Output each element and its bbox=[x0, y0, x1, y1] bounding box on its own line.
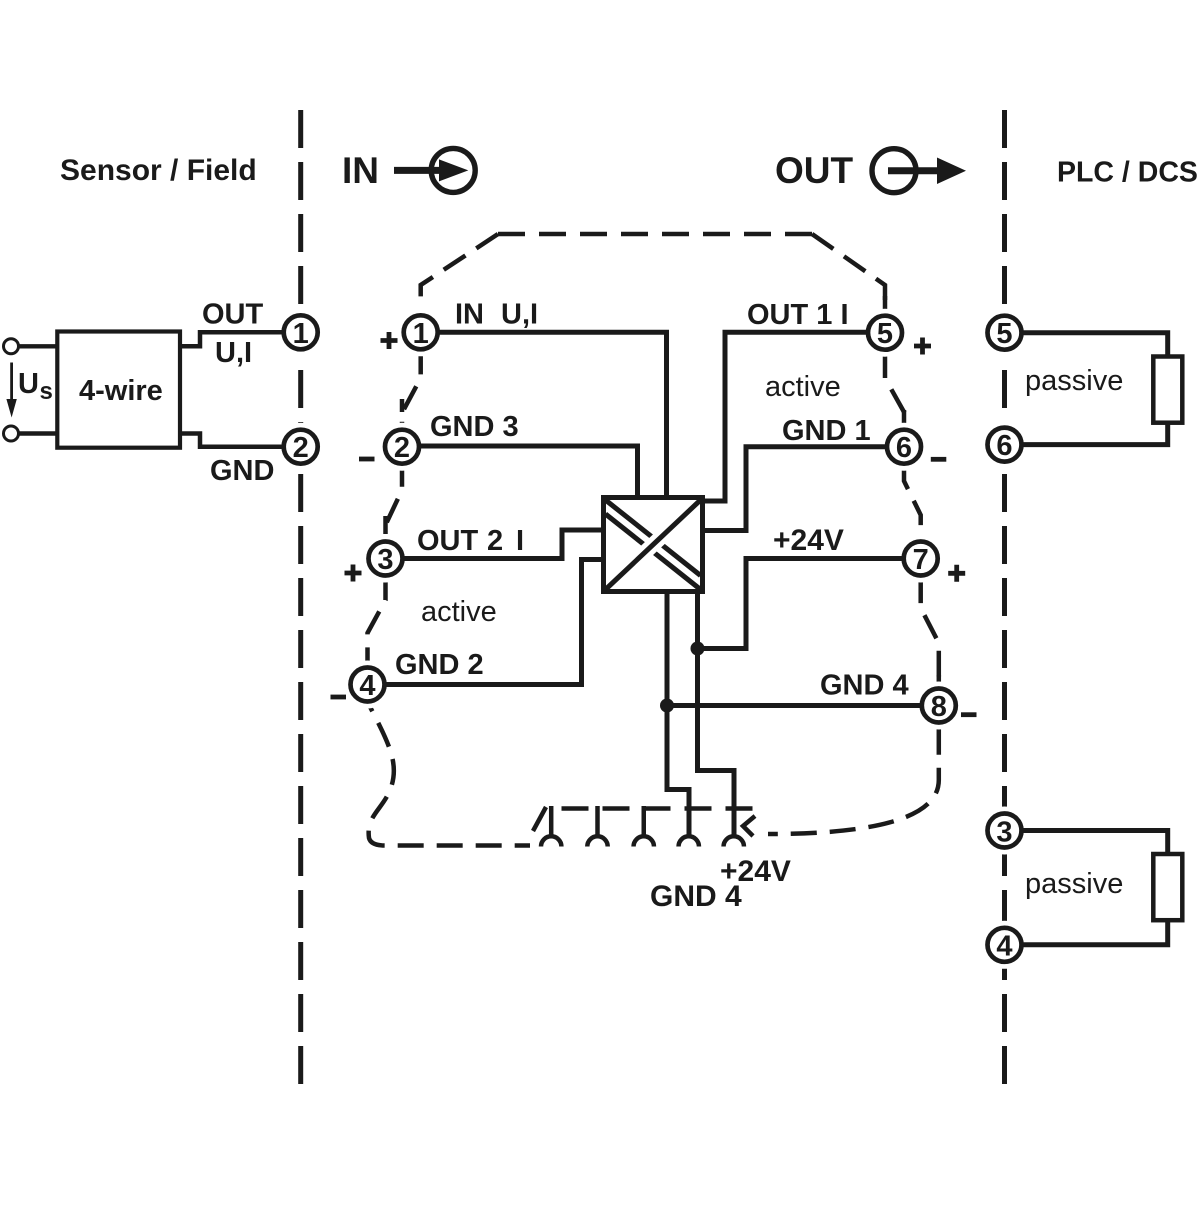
bus pin arc 3 bbox=[634, 836, 654, 846]
svg-text:GND 4: GND 4 bbox=[650, 880, 742, 913]
svg-text:s: s bbox=[40, 378, 53, 405]
svg-text:3: 3 bbox=[377, 544, 393, 576]
svg-text:1: 1 bbox=[413, 318, 429, 350]
svg-text:GND 2: GND 2 bbox=[395, 649, 484, 681]
module terminal 3 bbox=[369, 542, 403, 577]
terminal circle 2 (left separator) bbox=[284, 430, 318, 465]
bus pin stub 3 bbox=[642, 806, 647, 838]
svg-text:OUT: OUT bbox=[202, 299, 264, 331]
plus sign terminal 5 bbox=[914, 338, 931, 355]
PLC terminal 5 bbox=[988, 316, 1022, 351]
svg-text:GND 4: GND 4 bbox=[820, 670, 909, 702]
OUT symbol bbox=[872, 149, 966, 193]
svg-text:PLC / DCS: PLC / DCS bbox=[1057, 156, 1198, 188]
svg-text:2: 2 bbox=[394, 432, 410, 464]
minus sign terminal 6 bbox=[931, 457, 947, 462]
svg-text:active: active bbox=[421, 596, 497, 628]
wire IN U,I terminal 1 to isolator bbox=[438, 332, 667, 497]
wire isolator +24V down to bus pin 5 bbox=[698, 592, 735, 838]
svg-text:3: 3 bbox=[996, 817, 1012, 849]
svg-text:IN: IN bbox=[455, 299, 484, 331]
svg-text:5: 5 bbox=[996, 318, 1012, 350]
wire 4-wire OUT to terminal 1 bbox=[180, 332, 285, 346]
boundary stub dashes near terminals bbox=[386, 296, 939, 687]
svg-text:4: 4 bbox=[996, 930, 1012, 962]
bus pin arc 4 bbox=[679, 836, 699, 846]
module dashed boundary top bbox=[498, 232, 812, 237]
svg-text:GND 3: GND 3 bbox=[430, 411, 519, 443]
wire OUT 1 I isolator to terminal 5 bbox=[703, 332, 868, 501]
module terminal 2 bbox=[385, 430, 419, 465]
svg-text:5: 5 bbox=[877, 318, 893, 350]
wire isolator GND4 down to bus pin 4 bbox=[667, 592, 689, 838]
wire GND 2 terminal 4 to isolator bbox=[385, 560, 603, 685]
module terminal 4 bbox=[351, 668, 385, 703]
svg-text:4: 4 bbox=[359, 670, 375, 702]
plus sign terminal 3 bbox=[345, 565, 362, 582]
minus sign terminal 2 bbox=[359, 457, 375, 462]
wire GND 1 isolator to terminal 6 bbox=[703, 447, 887, 531]
svg-text:2: 2 bbox=[487, 525, 503, 557]
svg-text:passive: passive bbox=[1025, 365, 1123, 397]
svg-text:GND: GND bbox=[210, 455, 274, 487]
right separator dashed line bbox=[1002, 110, 1007, 1085]
isolator U1 crossing diagonal with white casing bbox=[606, 500, 701, 590]
svg-text:Sensor / Field: Sensor / Field bbox=[60, 154, 257, 187]
bus pin arc 2 bbox=[587, 836, 607, 846]
isolator U1 box bbox=[604, 498, 703, 592]
isolator U1 white fill bbox=[601, 495, 705, 594]
PLC load 1 wires bbox=[1022, 333, 1168, 445]
svg-text:OUT: OUT bbox=[775, 150, 854, 191]
bus connector dashed baseline bbox=[562, 806, 754, 811]
svg-text:OUT: OUT bbox=[417, 525, 479, 557]
module dashed boundary left bbox=[368, 234, 531, 846]
PLC load 2 wires bbox=[1022, 831, 1168, 945]
IN symbol bbox=[394, 148, 475, 192]
PLC terminal 3 bbox=[988, 814, 1022, 849]
svg-text:U: U bbox=[18, 368, 39, 400]
terminal circle 1 (left separator) bbox=[284, 315, 318, 350]
module terminal 1 bbox=[404, 315, 438, 350]
sensor terminal bottom circle bbox=[4, 426, 19, 441]
wire GND 3 terminal 2 to isolator bbox=[420, 446, 638, 497]
module terminal 8 bbox=[922, 689, 956, 724]
minus sign terminal 4 bbox=[331, 695, 347, 700]
svg-text:8: 8 bbox=[931, 691, 947, 723]
bus pin stub 1 bbox=[549, 806, 554, 838]
junction dot +24V bbox=[691, 642, 705, 656]
wire GND 4 junction to terminal 8 bbox=[667, 703, 922, 708]
junction dot GND4 bbox=[660, 699, 674, 713]
svg-text:IN: IN bbox=[342, 150, 379, 191]
module terminal 5 bbox=[868, 316, 902, 351]
bus connector left tick bbox=[533, 807, 546, 831]
module dashed boundary right bbox=[768, 234, 939, 834]
halos to keep dash gap around terminals bbox=[277, 308, 1029, 969]
svg-text:6: 6 bbox=[996, 430, 1012, 462]
PLC load 1 resistor bbox=[1153, 357, 1182, 423]
bus pin stub 2 bbox=[595, 806, 600, 838]
PLC terminal 4 bbox=[988, 928, 1022, 963]
module terminal 6 bbox=[887, 430, 921, 465]
svg-text:I: I bbox=[516, 525, 524, 557]
wire +24V terminal 7 to junction bbox=[698, 559, 904, 649]
left separator dashed line bbox=[298, 110, 303, 1085]
svg-text:U,I: U,I bbox=[215, 337, 252, 369]
svg-text:7: 7 bbox=[913, 544, 929, 576]
wire 4-wire GND to terminal 2 bbox=[180, 434, 285, 447]
svg-text:2: 2 bbox=[293, 432, 309, 464]
PLC terminal 6 bbox=[988, 428, 1022, 463]
bus pin arc 1 bbox=[541, 836, 561, 846]
svg-text:6: 6 bbox=[896, 432, 912, 464]
svg-text:passive: passive bbox=[1025, 868, 1123, 900]
wire sensor top to box bbox=[19, 344, 57, 348]
minus sign terminal 8 bbox=[961, 712, 977, 717]
plus sign terminal 7 bbox=[948, 565, 965, 582]
svg-text:+24V: +24V bbox=[773, 524, 844, 557]
PLC load 2 resistor bbox=[1153, 854, 1182, 920]
svg-text:1: 1 bbox=[293, 318, 309, 350]
svg-text:GND 1: GND 1 bbox=[782, 415, 871, 447]
bus pin arc 5 bbox=[724, 836, 744, 846]
svg-text:U,I: U,I bbox=[501, 299, 538, 331]
wire sensor bottom to box bbox=[19, 431, 57, 435]
wire OUT 2 I terminal 3 to isolator bbox=[403, 530, 603, 559]
bus connector right tick bbox=[743, 816, 755, 836]
module terminal 7 bbox=[904, 542, 938, 577]
plus sign terminal 1 bbox=[381, 332, 398, 349]
isolator U1 barrier double diagonal bbox=[606, 500, 701, 576]
4-wire transmitter box bbox=[57, 332, 180, 448]
svg-text:active: active bbox=[765, 371, 841, 403]
svg-text:OUT 1 I: OUT 1 I bbox=[747, 299, 849, 331]
svg-text:4-wire: 4-wire bbox=[79, 375, 163, 407]
Us arrow bbox=[10, 363, 13, 402]
sensor terminal top circle bbox=[4, 339, 19, 354]
